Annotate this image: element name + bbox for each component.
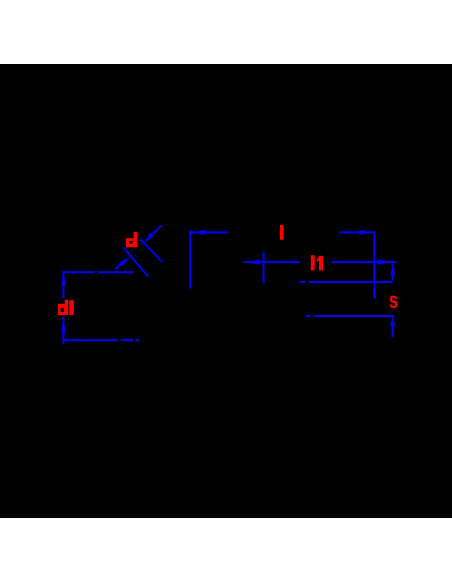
wire tail of d arrow lower <box>115 264 121 269</box>
dimension line s upper tail <box>392 263 394 272</box>
arrowhead l1 left <box>248 259 260 264</box>
arrowhead l1 right <box>378 259 390 264</box>
arrowhead l right <box>359 230 371 235</box>
extension line l left <box>189 231 191 289</box>
extension line hex flat upper <box>299 281 392 283</box>
svg-text:s: s <box>389 289 398 314</box>
label d1 (red) <box>58 300 74 315</box>
dimension line l1 right segment <box>332 261 396 263</box>
arrowhead d lower pointing NE <box>120 257 131 267</box>
extension line d lower (45 deg) <box>123 247 148 277</box>
extension line d upper (45 deg) <box>140 239 162 262</box>
top white band <box>0 0 452 64</box>
label l (red) <box>280 225 284 240</box>
dimension line l left segment <box>191 231 228 233</box>
dimension line l1 left segment <box>243 261 300 263</box>
label s (red) <box>389 289 398 314</box>
label d (red) <box>126 232 137 247</box>
taper end of l right extension <box>373 295 375 300</box>
extension line l right <box>373 231 375 297</box>
extension line l1 left <box>263 252 265 284</box>
wire top edge line of body (d1 upper extension) <box>63 271 134 273</box>
arrowhead d1 down <box>61 327 66 340</box>
counter hole of label d1 <box>61 308 64 312</box>
arrowhead s down <box>390 271 395 283</box>
label l1 (red) <box>311 255 323 270</box>
dimension line s lower tail <box>392 326 394 337</box>
bottom white band <box>0 518 452 584</box>
dimension line d1 (vertical) <box>62 271 64 344</box>
counter hole of label d <box>130 241 133 244</box>
arrowhead l left <box>193 230 205 235</box>
extension line hex flat lower <box>306 315 394 317</box>
arrowhead d upper pointing SW <box>144 233 154 243</box>
wire bottom edge line of body (d1 lower extension, dashed tail) <box>63 339 140 341</box>
dimension line l right segment <box>339 231 375 233</box>
arrowhead s up <box>390 316 395 326</box>
wire tail of d arrow upper <box>152 226 161 235</box>
arrowhead d1 up <box>61 272 66 285</box>
